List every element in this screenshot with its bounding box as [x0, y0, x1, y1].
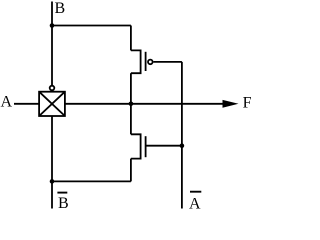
node B-bar / bottom-wire junction: [50, 179, 55, 184]
svg-text:A: A: [189, 196, 201, 210]
wire A input: [14, 103, 39, 105]
net label B-bar: [57, 193, 68, 212]
wire B vertical: [51, 2, 53, 86]
wire PMOS gate lead: [154, 61, 182, 63]
wire output to arrow: [65, 103, 224, 105]
net label A-bar: [189, 192, 201, 213]
transistor NMOS (pass transistor, source B-bar): [131, 134, 146, 158]
svg-text:B: B: [55, 0, 66, 17]
svg-text:F: F: [243, 95, 252, 112]
transmission gate (box with X, control B): [39, 86, 65, 116]
wire NMOS drain lead from F node: [130, 104, 132, 135]
wire NMOS source lead: [130, 159, 132, 182]
node B/top-wire junction: [50, 23, 55, 28]
wire top horizontal B to PMOS drain: [52, 25, 131, 27]
svg-text:B: B: [58, 195, 69, 209]
wire A-bar vertical: [181, 62, 183, 209]
wire PMOS source lead to F node: [130, 73, 132, 104]
wire bottom horizontal B-bar to NMOS source: [52, 180, 131, 182]
wire B-bar vertical: [51, 116, 53, 209]
node F output junction: [129, 102, 134, 107]
wire PMOS drain lead: [130, 26, 132, 51]
wire NMOS gate lead: [146, 145, 182, 147]
arrowhead output: [223, 100, 239, 108]
svg-text:A: A: [1, 94, 13, 111]
node NMOS gate / A-bar junction: [180, 143, 185, 148]
transistor PMOS (pass transistor, source B): [131, 50, 153, 73]
